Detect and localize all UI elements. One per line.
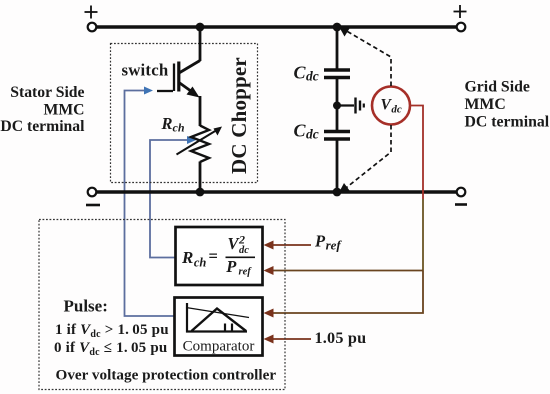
svg-text:dc: dc [239,245,249,256]
voltmeter Vdc [372,87,410,125]
capacitor Cdc2 [324,132,350,140]
svg-text:DC terminal: DC terminal [0,118,85,135]
svg-text:P: P [225,257,237,276]
wire blue gate control [125,87,177,317]
label Rch [161,114,185,135]
node bottom bus chopper junction [196,188,205,197]
svg-text:=: = [209,247,218,266]
svg-text:DC Chopper: DC Chopper [227,57,251,174]
node capacitor midpoint [333,102,341,110]
label Stator Side MMC DC terminal [0,84,85,135]
terminal positive left [85,6,98,32]
label 1.05 pu [315,329,367,347]
wire Pref arrow [264,241,312,250]
svg-text:Comparator: Comparator [183,339,255,355]
DC Chopper dashed box [111,44,258,183]
svg-text:Pulse:: Pulse: [64,297,108,316]
wire blue Rch control [150,136,196,258]
svg-text:MMC: MMC [465,96,506,113]
wire emitter to resistor [199,96,202,126]
controller dashed box [39,220,285,390]
label pulse condition 0 [54,340,167,358]
block comparator box [175,298,263,356]
wire capacitor branch lower [336,139,339,192]
wire resistor to bottom bus [199,162,202,193]
wire capacitor midpoint [336,78,339,132]
svg-text:Grid Side: Grid Side [465,78,530,95]
resistor Rch [177,126,223,163]
block Rch equation box [176,227,263,285]
wire collector [179,27,200,73]
label Pref [314,232,342,253]
wire Vdc to comparator [264,271,424,318]
label switch [122,61,169,80]
label over voltage protection controller [56,367,277,384]
node top bus capacitor junction [333,23,342,32]
svg-text:MMC: MMC [44,102,85,119]
wire top DC bus [96,25,457,28]
node bottom bus capacitor junction [333,188,342,197]
wire bottom DC bus [96,190,457,193]
terminal negative left [86,188,100,205]
svg-text:1.05 pu: 1.05 pu [315,329,367,347]
transistor IGBT switch [157,62,200,98]
svg-text:0 if Vdc ≤ 1. 05 pu: 0 if Vdc ≤ 1. 05 pu [54,340,167,358]
label Grid Side MMC DC terminal [465,78,550,130]
svg-text:DC terminal: DC terminal [465,113,550,130]
wire Vdc output red [410,106,423,271]
wire dashed sense bottom [340,125,392,192]
label Cdc2 [294,121,319,142]
wire capacitor branch upper [336,27,339,69]
label pulse condition 1 [55,322,169,340]
svg-text:switch: switch [122,61,169,80]
svg-text:Over voltage protection contro: Over voltage protection controller [56,367,277,384]
wire dashed sense top [340,28,392,87]
capacitor Cdc1 [324,70,350,78]
label Cdc1 [294,63,319,84]
svg-text:ref: ref [239,267,253,278]
svg-text:1 if Vdc > 1. 05 pu: 1 if Vdc > 1. 05 pu [55,322,169,340]
node top bus chopper junction [196,23,205,32]
terminal negative right [455,188,467,205]
label DC Chopper [227,57,251,174]
terminal positive right [454,5,467,31]
svg-text:Stator Side: Stator Side [10,84,84,101]
wire Vdc to Rch equation [264,266,424,275]
wire 1.05 pu arrow [264,335,312,344]
ground [337,98,364,114]
label Pulse [64,297,108,316]
